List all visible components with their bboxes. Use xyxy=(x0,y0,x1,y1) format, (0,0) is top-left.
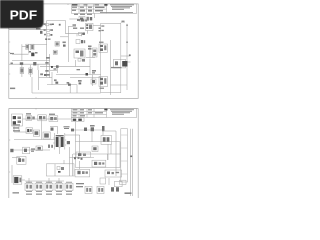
wire xyxy=(47,20,66,22)
wire xyxy=(107,144,109,160)
wire xyxy=(108,178,110,185)
wire stubs xyxy=(25,178,64,183)
wire xyxy=(32,92,101,94)
wire xyxy=(13,126,15,132)
filter FL1 xyxy=(38,115,47,121)
wire xyxy=(66,33,86,35)
IC U10 xyxy=(25,183,33,190)
wire xyxy=(51,72,53,85)
fuse F1 xyxy=(26,113,35,120)
resistor R6 xyxy=(29,65,33,77)
wire xyxy=(77,19,88,21)
varistor RV1 xyxy=(17,157,26,165)
driver box xyxy=(46,160,74,176)
page 2 title block table xyxy=(72,108,137,117)
relay K1 xyxy=(99,42,108,53)
wire xyxy=(76,34,78,37)
wire xyxy=(50,126,58,128)
page 1 border frame xyxy=(9,4,138,99)
wire xyxy=(71,154,73,176)
wire xyxy=(70,76,101,78)
heatsink box xyxy=(76,152,91,157)
capacitor C1 label xyxy=(10,53,14,54)
wire xyxy=(39,76,52,78)
op-amp U1 box xyxy=(74,49,85,58)
svg-text:PDF: PDF xyxy=(10,8,38,23)
connector ticks xyxy=(99,25,105,31)
resistor R3 xyxy=(44,29,54,31)
wire xyxy=(105,130,116,132)
resistor cluster RC1 xyxy=(76,40,85,44)
capacitor C2 xyxy=(20,62,23,65)
wire xyxy=(110,144,112,154)
component cluster under table xyxy=(74,14,92,21)
speaker connector xyxy=(114,59,128,68)
capacitor C11 xyxy=(67,141,70,144)
wire xyxy=(31,77,33,93)
transformer T1 xyxy=(53,133,66,150)
wire xyxy=(126,24,128,90)
wire xyxy=(21,44,23,61)
relay K2 xyxy=(99,77,108,89)
AC inlet connector xyxy=(12,114,23,126)
capacitor cluster xyxy=(91,79,96,84)
wire xyxy=(81,34,83,37)
wire xyxy=(57,127,59,135)
diode pair D4 xyxy=(88,46,92,50)
resistor R1 xyxy=(36,28,43,34)
capacitor C12 xyxy=(10,149,13,152)
speck cluster xyxy=(92,70,96,74)
bridge rectifier BR1 xyxy=(26,128,33,134)
value label xyxy=(111,67,122,68)
wire xyxy=(40,66,90,68)
wire xyxy=(79,135,81,154)
wire xyxy=(28,45,30,54)
resistor R13 xyxy=(79,32,85,35)
transistor Q6 xyxy=(67,82,71,86)
wire xyxy=(65,21,67,34)
tick xyxy=(130,156,132,158)
diode D1 xyxy=(26,44,29,49)
rectifier cluster xyxy=(36,145,53,151)
capacitor C13 xyxy=(43,132,50,139)
wire xyxy=(68,25,76,27)
switch SW1 xyxy=(49,114,58,122)
wire xyxy=(69,85,71,93)
IC U11 xyxy=(35,183,43,190)
wire xyxy=(12,53,29,55)
wire xyxy=(75,60,77,66)
wire xyxy=(93,25,101,27)
vertical rail xyxy=(67,26,69,62)
wire xyxy=(76,85,78,93)
PDF badge xyxy=(0,0,44,28)
resistor R21 xyxy=(105,170,122,177)
wire xyxy=(37,64,39,70)
wire xyxy=(69,18,78,20)
wire xyxy=(14,139,55,141)
wire xyxy=(23,118,72,120)
capacitor bank C20 xyxy=(85,186,92,193)
wire xyxy=(22,46,26,48)
resistor R9 xyxy=(40,73,46,76)
wire xyxy=(38,70,40,90)
wire xyxy=(12,60,50,62)
wire xyxy=(47,84,77,86)
central rail xyxy=(49,54,51,78)
wire xyxy=(50,70,57,72)
wire xyxy=(115,131,117,176)
wire xyxy=(107,154,109,160)
wire xyxy=(79,161,81,169)
wire xyxy=(86,57,95,59)
component cluster mid xyxy=(63,42,66,47)
MW label xyxy=(10,88,15,90)
IC U13 xyxy=(55,183,63,190)
connector block J1 xyxy=(101,21,125,93)
resistor R5 xyxy=(20,65,24,77)
wire xyxy=(111,84,128,86)
resistor R4 xyxy=(31,44,34,50)
wire xyxy=(92,75,94,87)
dark pair xyxy=(86,73,89,76)
IC X1 box xyxy=(86,23,94,30)
speck pair xyxy=(45,38,50,40)
value label xyxy=(64,126,70,129)
small box xyxy=(100,178,106,184)
bus wire xyxy=(129,129,131,196)
wire xyxy=(29,44,47,46)
label cluster xyxy=(54,68,57,69)
capacitor C3 xyxy=(33,62,36,65)
resistor R8 xyxy=(53,50,57,54)
wire xyxy=(59,147,61,154)
connector J2 xyxy=(71,118,84,122)
secondary group box xyxy=(76,142,121,168)
wire xyxy=(102,130,104,136)
connector J3 xyxy=(13,176,25,184)
label xyxy=(13,127,20,131)
capacitor C14 xyxy=(51,128,54,131)
wire xyxy=(73,153,121,155)
small box T2 xyxy=(92,146,98,152)
diode D3 xyxy=(56,65,59,73)
node wire xyxy=(46,21,48,78)
wire xyxy=(89,59,91,75)
wire xyxy=(70,156,95,158)
PWM controller IC2 xyxy=(92,160,106,167)
wire xyxy=(12,157,20,159)
small box pair xyxy=(78,59,85,62)
label xyxy=(77,69,81,70)
wire xyxy=(121,55,130,57)
node speck xyxy=(11,63,13,65)
page 2 circuit xyxy=(10,113,132,196)
wire xyxy=(18,126,20,132)
label text xyxy=(76,183,84,187)
capacitor bank C21 xyxy=(97,186,104,193)
wire xyxy=(60,36,68,38)
wire xyxy=(65,134,80,136)
wire xyxy=(69,147,71,176)
inductor L1 xyxy=(23,147,36,154)
wire xyxy=(89,46,91,58)
wire xyxy=(41,119,43,140)
pin number row xyxy=(13,192,132,195)
resistor row R14 xyxy=(44,34,52,36)
page 1 circuit xyxy=(9,13,131,95)
wire xyxy=(14,131,30,133)
wire xyxy=(12,149,50,151)
capacitor C22 xyxy=(111,187,119,191)
resistor R10 xyxy=(78,80,82,84)
wire xyxy=(56,74,101,76)
label xyxy=(73,24,77,26)
IC U14 xyxy=(65,183,73,190)
pin ticks xyxy=(26,181,72,184)
diode D2 xyxy=(59,24,61,26)
transistor Q2 cluster xyxy=(45,57,53,76)
diode row D10 xyxy=(71,125,105,131)
wire xyxy=(91,132,93,142)
transistor Q4 cluster xyxy=(93,48,98,57)
snubber cluster xyxy=(101,136,112,145)
wire xyxy=(9,63,50,65)
wire xyxy=(11,165,13,183)
page 1 title block table xyxy=(72,4,137,14)
wire xyxy=(9,29,47,31)
wire xyxy=(75,121,77,141)
resistor R2 xyxy=(44,23,54,26)
wire xyxy=(87,31,89,34)
small box xyxy=(115,180,127,187)
resistor R7 xyxy=(55,42,59,47)
capacitor C10 xyxy=(33,130,39,136)
IC U12 xyxy=(45,183,53,190)
diode row xyxy=(77,19,87,22)
resistor R20 xyxy=(75,169,90,177)
junction specks xyxy=(74,157,83,160)
TO-220 IC big box xyxy=(121,129,128,182)
page 2 border frame xyxy=(9,108,138,198)
wire xyxy=(94,13,96,18)
transistor Q5 xyxy=(54,79,58,83)
label pair xyxy=(73,28,84,29)
bus wire xyxy=(131,129,133,196)
transistor Q1 xyxy=(29,51,38,56)
pin ticks bottom xyxy=(26,190,72,193)
wire xyxy=(110,40,112,95)
